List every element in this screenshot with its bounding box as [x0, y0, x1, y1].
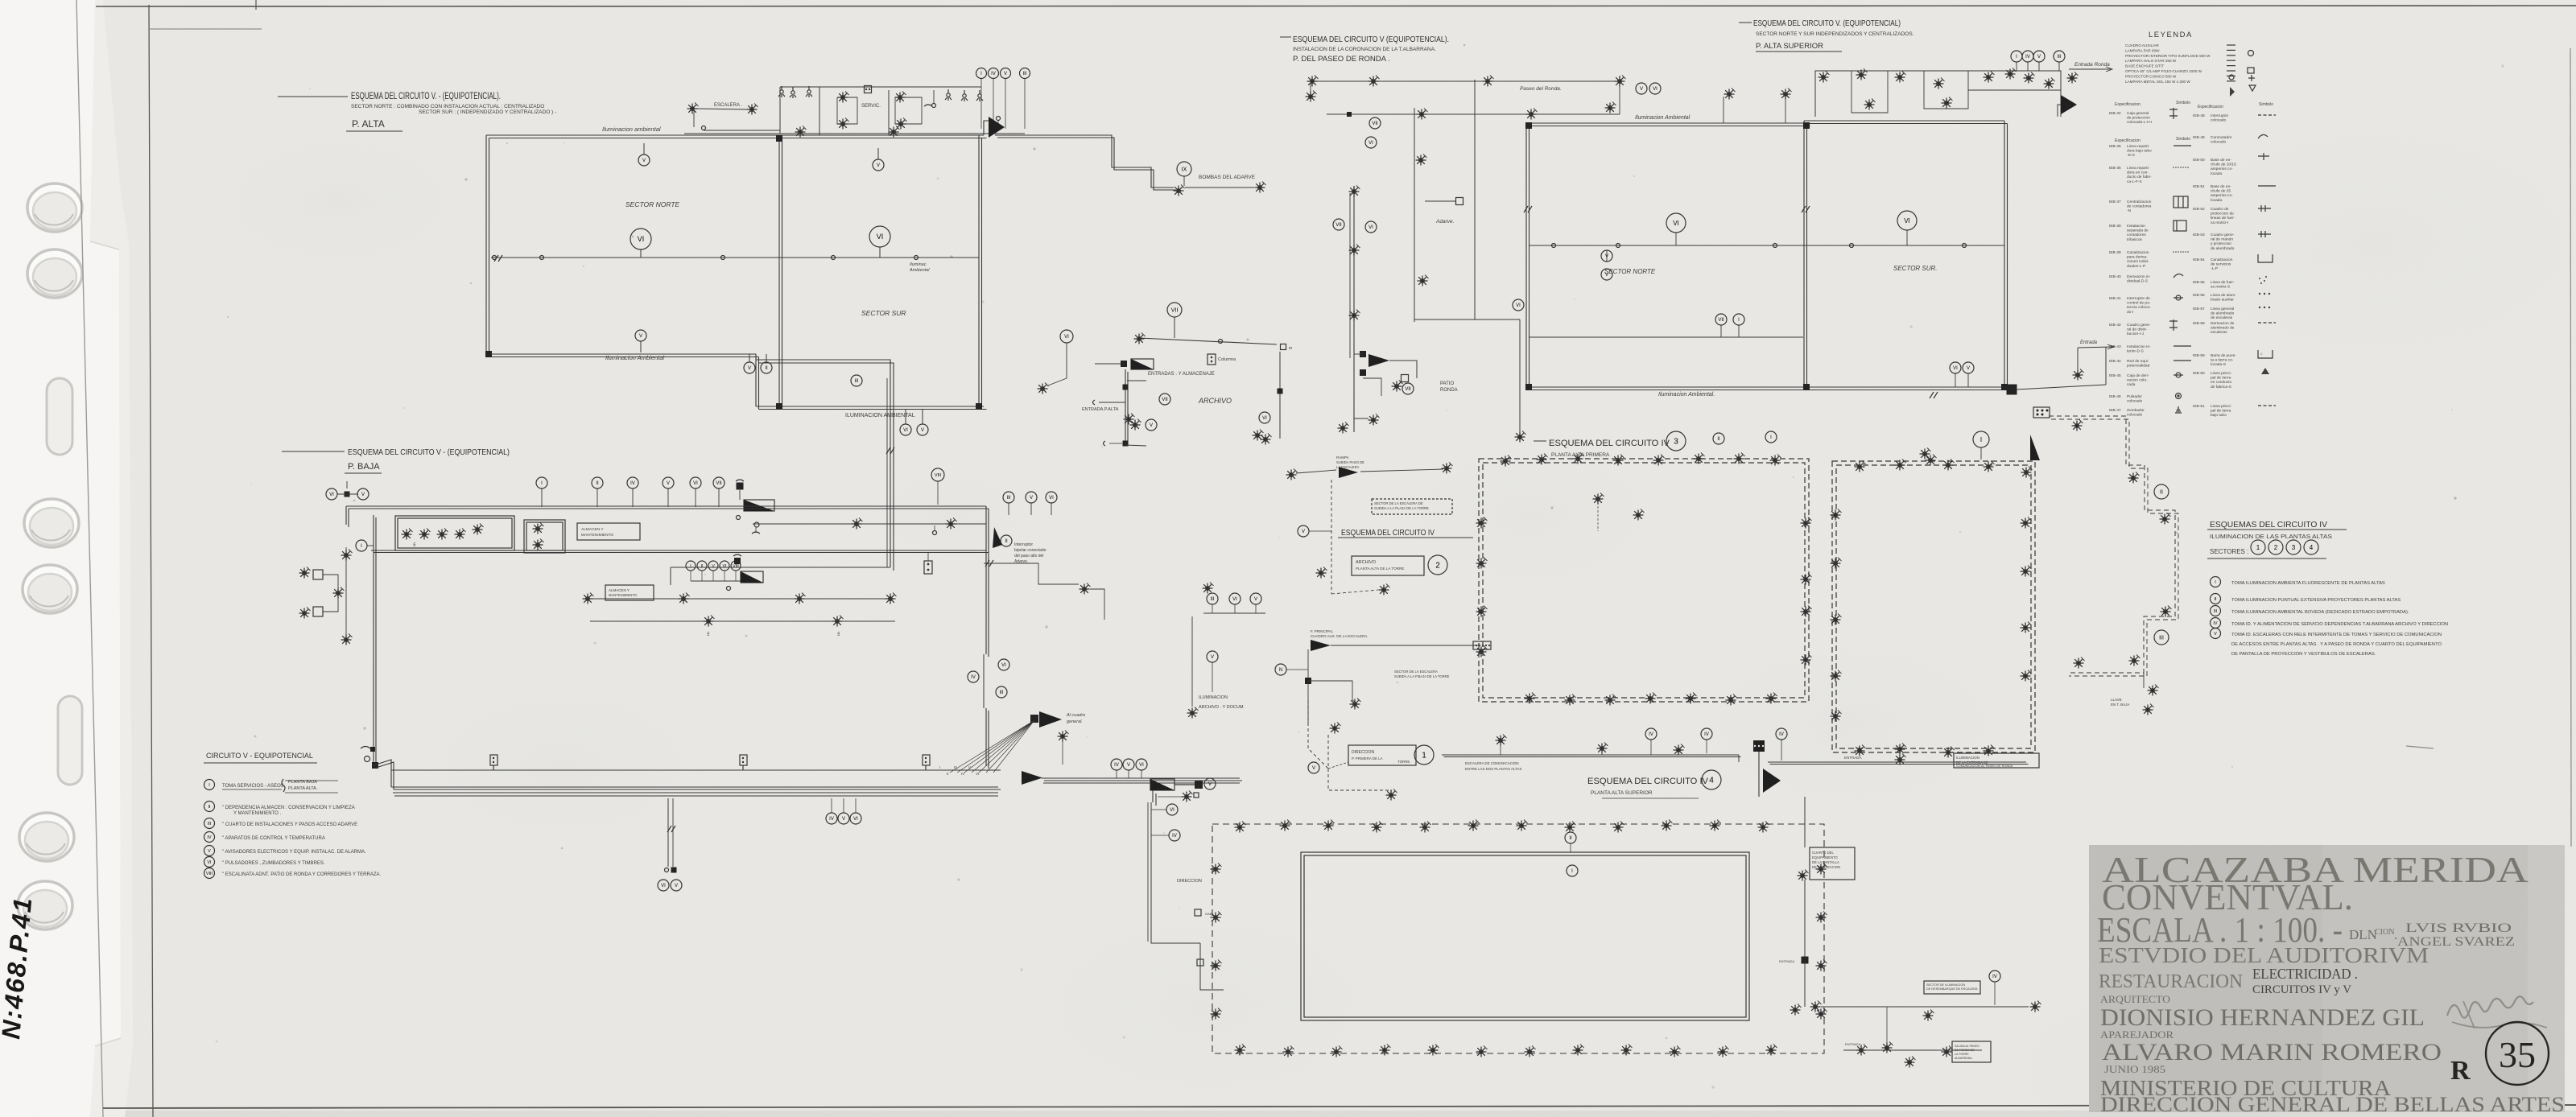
paper specks [937, 178, 939, 180]
divider [1924, 71, 1968, 109]
wire [1354, 353, 1363, 355]
feeder wedge [1311, 640, 1331, 651]
branch [1127, 380, 1146, 381]
node II [2211, 594, 2221, 604]
P.BAJA wedge 2 (half-filled feeder) [741, 571, 763, 583]
feeder wedge [1039, 711, 1062, 727]
lamp [2160, 513, 2171, 525]
wire node [914, 256, 919, 260]
lamp [832, 616, 844, 627]
lamp [1349, 310, 1360, 321]
drop wire [667, 798, 669, 867]
lamp IV-3 [1895, 460, 1906, 471]
feeder wedge IV-3 [2030, 435, 2040, 460]
punch hole [18, 881, 72, 929]
junction box [1803, 384, 1810, 390]
stub [1650, 740, 1652, 755]
node V [663, 477, 674, 488]
lamp IV-4 [1211, 912, 1222, 923]
lamp [1261, 434, 1272, 445]
node VI [1136, 759, 1147, 770]
drop wires [1152, 790, 1154, 802]
wire node [1850, 244, 1854, 248]
drop [695, 488, 696, 507]
drop [2058, 62, 2060, 71]
stub [1151, 809, 1166, 810]
wall left P.ALTA [485, 135, 487, 354]
stub [1980, 447, 1982, 460]
almacen room 2 + lamps mid [605, 585, 654, 600]
wire to wedge [984, 121, 989, 135]
stub [934, 526, 935, 530]
columna box [1207, 354, 1216, 365]
feeder wedge [989, 117, 1005, 138]
title rule [282, 451, 345, 452]
wire [1095, 363, 1121, 365]
loop [895, 97, 922, 124]
node V [1207, 651, 1218, 662]
lamp IV-3 [1770, 455, 1781, 466]
connector [313, 607, 323, 616]
stub [1706, 740, 1707, 753]
stub [643, 143, 645, 155]
drop [2077, 348, 2079, 370]
hatch marks [494, 255, 502, 262]
lamp [2128, 472, 2140, 484]
node VII [1402, 383, 1414, 394]
feeder drop [1005, 79, 1006, 129]
frame bottom border [103, 1105, 2576, 1108]
punch slot [58, 696, 82, 785]
lamp IV-4 [1283, 1046, 1294, 1057]
feeder wedge [1339, 467, 1358, 478]
junction box [1123, 385, 1129, 390]
node [737, 516, 741, 520]
node V [1204, 778, 1216, 789]
dashed [1308, 700, 1328, 769]
stub [922, 410, 923, 424]
lamp [1134, 333, 1146, 344]
branch wire [984, 563, 1079, 584]
lamp [533, 523, 544, 534]
node VII [1167, 303, 1182, 317]
lamp [1174, 185, 1185, 196]
lamp IV-4 [1816, 864, 1827, 875]
lamp [1984, 72, 1995, 83]
lamp IV-3 [1645, 693, 1657, 704]
lamp [687, 103, 699, 114]
entrada wire [2078, 347, 2113, 348]
node II [204, 802, 215, 812]
drop to almacen [670, 567, 671, 585]
lamp IV-4 [1211, 960, 1222, 971]
lamp [885, 593, 897, 604]
junction box [1123, 441, 1129, 447]
wall left [373, 515, 374, 765]
hanging lamps [778, 86, 785, 97]
lamp IV-3 [1855, 461, 1866, 472]
wall y684 [371, 550, 986, 551]
stub [1151, 835, 1169, 836]
lamp IV-4 [1476, 1046, 1488, 1057]
bottom bundle fourth [394, 795, 998, 797]
lamp [1368, 414, 1380, 426]
lamp IV-3 [1801, 517, 1812, 529]
entradas wedge [1131, 359, 1154, 369]
lamp IV-4 [1380, 1045, 1391, 1056]
trunk 2 [983, 654, 985, 708]
stub [701, 571, 703, 581]
stub [1158, 796, 1182, 798]
lamp [2005, 68, 2017, 80]
drop [1758, 752, 1760, 797]
feeder wedge [1368, 354, 1389, 367]
lamp [1597, 743, 1608, 754]
punch hole [27, 183, 82, 232]
scheme 4 outer dashed rect [1212, 824, 1824, 1053]
wire to right [1768, 761, 2026, 763]
fan wire [964, 720, 1034, 773]
underline [204, 762, 317, 764]
wire vert 4 [1519, 319, 1521, 432]
node [933, 531, 937, 535]
node VI [204, 857, 215, 868]
stub [855, 798, 857, 813]
drop [541, 488, 543, 507]
wall left [1525, 123, 1527, 387]
node VIII [204, 868, 215, 879]
node VI [998, 659, 1009, 670]
stub [1116, 770, 1117, 778]
lamp IV-4 [1525, 1046, 1536, 1057]
lamp [1934, 78, 1945, 89]
node VII [1333, 219, 1344, 230]
lamp IV-3 [1501, 455, 1512, 467]
node I [356, 540, 367, 551]
junction box [1347, 112, 1352, 117]
lamp IV-3 [1895, 744, 1906, 755]
lamp [2021, 467, 2033, 478]
wall top sur [1804, 120, 2004, 122]
arrow head [2107, 344, 2114, 349]
punch hole [27, 249, 82, 298]
bundle third [1043, 782, 1240, 784]
lamp [1349, 186, 1360, 197]
node IV [1169, 830, 1180, 841]
lamp [1856, 1045, 1868, 1056]
node VI [658, 880, 669, 891]
node VI [1229, 593, 1241, 604]
lamp IV-3 [1476, 558, 1488, 569]
wire [1328, 762, 1348, 769]
punch hole [19, 813, 74, 861]
wire vert 1b [1349, 193, 1351, 358]
node VI [1897, 211, 1917, 230]
junction box [776, 403, 782, 410]
lamp [946, 518, 957, 530]
lamp [838, 92, 849, 103]
lamp [1923, 1010, 1934, 1021]
node III [996, 686, 1007, 698]
bundle to right [1042, 777, 1240, 779]
lamp [1392, 381, 1403, 392]
stub [749, 354, 750, 362]
lamp IV-4 [1420, 822, 1431, 833]
wall right P.ALTA [978, 135, 980, 406]
node V [638, 155, 650, 166]
junction box [370, 747, 375, 752]
node IV [1111, 759, 1122, 770]
drop wires [1125, 369, 1126, 443]
stub [724, 571, 725, 581]
lamp [1130, 419, 1141, 431]
stub [1309, 530, 1331, 532]
lamp IV-4 [1816, 960, 1827, 971]
node III [1020, 68, 1030, 79]
lamp [583, 593, 594, 604]
wall top P.ALTA [486, 134, 984, 136]
node II [1001, 535, 1012, 546]
terminal block [2033, 407, 2050, 418]
stub [1619, 76, 1620, 81]
node V [1026, 492, 1037, 503]
lamp IV-3 [1984, 461, 1995, 472]
stub [346, 481, 348, 488]
junction [1195, 781, 1203, 789]
node IV [968, 671, 979, 682]
rule [2207, 529, 2347, 530]
lamp [341, 634, 353, 645]
wall top [1526, 122, 1807, 124]
lamp [1864, 99, 1876, 110]
underline [346, 130, 402, 132]
lamp IV-3 [1943, 747, 1955, 758]
room IV-3 left [1479, 459, 1809, 702]
wire node [1552, 244, 1556, 248]
lamp IV-3 [1831, 558, 1842, 569]
lamp [1442, 463, 1453, 474]
drop wire 2 [1804, 880, 1806, 960]
lamp IV-4 [1816, 912, 1827, 923]
fan wire [972, 720, 1034, 773]
node V [873, 159, 884, 171]
punch slot [47, 378, 72, 455]
lamp [341, 550, 353, 561]
node IV [989, 68, 999, 79]
bottom bundle [391, 786, 998, 788]
node I [1567, 865, 1578, 876]
lamp [2148, 685, 2159, 696]
stub [690, 571, 691, 581]
cuarto equipamiento [1810, 847, 1855, 880]
wire [1360, 469, 1443, 472]
connector [865, 86, 872, 93]
lamp [1416, 155, 1427, 166]
wire right [1279, 352, 1281, 439]
stub [739, 490, 741, 500]
feeder wedge [2061, 95, 2077, 114]
connector [1195, 909, 1201, 916]
wire entradas [1139, 338, 1277, 344]
node V [1001, 68, 1011, 79]
lamp IV-3 [2021, 622, 2032, 633]
box almacen y mantenimiento 1 [577, 523, 640, 540]
drop [1174, 317, 1175, 338]
wire vert 1 [1353, 186, 1355, 432]
node V [838, 813, 849, 824]
wire [1331, 645, 1480, 646]
drop wire [1048, 343, 1067, 385]
dashed drop [1331, 480, 1332, 594]
junction box [1030, 715, 1038, 723]
node [702, 126, 706, 130]
junction box [1360, 369, 1366, 376]
lamp [795, 126, 807, 138]
node VII [1369, 117, 1381, 129]
lamp [679, 593, 690, 604]
lamp IV-4 [1766, 1045, 1777, 1056]
lamp [419, 529, 431, 540]
stub [1967, 373, 1969, 387]
node V [1963, 362, 1974, 373]
connector [1197, 959, 1203, 966]
node V [204, 846, 215, 856]
stub [1008, 503, 1009, 515]
node III [851, 375, 862, 386]
arrow head [2106, 67, 2112, 72]
branch wire 2 [1090, 589, 1104, 620]
store room 1 [395, 516, 514, 550]
stub [1738, 325, 1740, 337]
node [932, 104, 936, 108]
direccion walls [1151, 802, 1200, 943]
stub [1141, 770, 1142, 778]
node V [357, 488, 369, 500]
stub [905, 410, 906, 424]
lamp [1810, 1001, 1822, 1012]
connector [313, 570, 323, 579]
stub [1234, 604, 1236, 613]
lamp [437, 529, 448, 540]
lamp IV-4 [1816, 1008, 1827, 1020]
wall bottom-left P.ALTA [486, 353, 756, 355]
connector [1402, 375, 1409, 382]
link [1886, 1007, 1888, 1046]
lamp IV-3 [1573, 453, 1584, 464]
stub [1128, 770, 1129, 778]
node V [1123, 759, 1134, 770]
lamp [1417, 109, 1428, 120]
node VI [900, 424, 911, 435]
drop [718, 488, 720, 507]
wire node [1773, 244, 1777, 248]
direccion box scheme 1 [1348, 745, 1416, 765]
lamp IV-4 [1468, 820, 1480, 831]
stub [766, 354, 767, 362]
bus [691, 580, 741, 582]
node V [917, 424, 928, 435]
rule [2207, 558, 2326, 559]
rule [1602, 798, 1699, 799]
node I [536, 477, 547, 488]
lamp IV-4 [1211, 1008, 1222, 1020]
P.BAJA wedge top (half-filled feeder) [744, 500, 774, 511]
drop [2143, 673, 2145, 688]
node IV [1989, 971, 2000, 982]
node VII [1715, 314, 1727, 325]
node V [2211, 629, 2221, 639]
stub [843, 798, 844, 813]
wire node [1616, 244, 1620, 248]
lamp IV-4 [1670, 1046, 1681, 1057]
lamp [1920, 448, 1931, 460]
lamp [1187, 707, 1199, 719]
lamp [1286, 469, 1298, 480]
junction wire [671, 567, 890, 568]
wire node [832, 256, 836, 260]
node II [2154, 484, 2169, 499]
badge 3 [2286, 540, 2301, 554]
lamp [2073, 369, 2084, 381]
signature scribble [2447, 996, 2533, 1017]
node I [1973, 431, 1989, 447]
lamp IV-4 [1331, 1046, 1343, 1057]
stub [1051, 503, 1052, 515]
bend [374, 760, 391, 787]
lamp IV-4 [1613, 822, 1624, 833]
wire [1843, 1049, 1982, 1051]
lamp [1856, 69, 1868, 80]
junction box plan4 [2007, 385, 2017, 395]
stub [1785, 97, 1786, 123]
node VII [713, 477, 724, 488]
lamp [2129, 655, 2140, 666]
wire vert 3 [1474, 80, 1476, 319]
lamp [1882, 1042, 1893, 1053]
junction box [1278, 389, 1283, 394]
direccion wall pair [1147, 802, 1149, 942]
room IV-4 inner [1301, 852, 1749, 1020]
stepped feeder [995, 135, 1174, 188]
branch [1308, 681, 1352, 700]
stub [640, 249, 642, 258]
junction box [345, 492, 350, 497]
node V [744, 362, 755, 373]
lamp IV-4 [1621, 1045, 1633, 1056]
junction box [1802, 957, 1809, 964]
lamp [1798, 870, 1809, 881]
outline [1815, 71, 2061, 117]
node VI [1365, 137, 1377, 148]
drop [1212, 662, 1213, 692]
wire [1296, 470, 1336, 473]
badge 2 [2268, 540, 2283, 554]
dash [1280, 36, 1291, 38]
trunk 3 [985, 708, 987, 766]
lamp IV-3 [1831, 509, 1842, 521]
wire [1363, 378, 1381, 396]
lamp [895, 92, 906, 103]
wire [1354, 402, 1368, 418]
lamp IV-4 [1372, 822, 1383, 833]
pencil dash [2406, 746, 2434, 748]
fan wire [986, 720, 1034, 773]
stub [1955, 373, 1956, 387]
stub [1030, 503, 1032, 515]
lamp [2030, 1001, 2041, 1012]
lamp [299, 567, 311, 579]
node VI [630, 229, 651, 249]
